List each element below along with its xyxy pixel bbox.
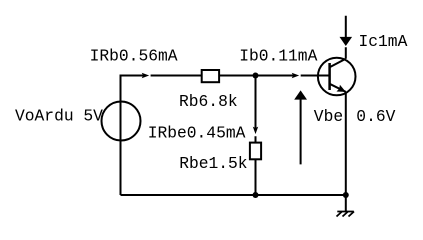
svg-text:Vbe: Vbe (314, 107, 343, 126)
svg-text:Ib0.11mA: Ib0.11mA (239, 46, 317, 65)
svg-text:0.6V: 0.6V (356, 107, 395, 126)
transistor Q1 base bar (328, 63, 331, 90)
transistor Q1 body circle (318, 58, 356, 96)
arrowhead IRbe current direction (253, 127, 258, 135)
wire bottom rail (121, 194, 346, 196)
svg-text:Rbe1.5k: Rbe1.5k (179, 154, 247, 173)
svg-text:Rb6.8k: Rb6.8k (179, 92, 238, 111)
wire top segment Rb to base node (220, 75, 330, 77)
transistor Q1 collector diagonal (330, 59, 346, 68)
wire junction down to Rbe (255, 76, 257, 143)
transistor Q1 emitter diagonal (330, 84, 346, 92)
resistor Rbe (250, 143, 261, 160)
svg-text:Ic1mA: Ic1mA (359, 32, 408, 51)
wire left vertical (source branch) (120, 75, 122, 196)
wire top segment source to Rb (120, 75, 202, 77)
node junction dot emitter/bottom rail (343, 192, 349, 198)
wire Rbe to bottom rail (255, 160, 257, 195)
arrowhead Ib current direction (292, 73, 300, 78)
transistor Q1 emitter arrowhead (337, 85, 346, 92)
svg-text:IRbe0.45mA: IRbe0.45mA (148, 123, 246, 142)
svg-text:VoArdu 5V: VoArdu 5V (15, 107, 103, 126)
svg-text:IRb0.56mA: IRb0.56mA (90, 46, 178, 65)
node junction dot at Rb/Rbe/base (253, 73, 259, 79)
node junction dot Rbe/bottom rail (253, 192, 259, 198)
voltage source V (VoArdu) (102, 102, 141, 141)
wire collector vertical (345, 16, 347, 59)
wire emitter vertical to bottom rail (345, 92, 347, 195)
resistor Rb (202, 70, 219, 82)
ground symbol (337, 195, 355, 217)
arrowhead Ic current direction (340, 37, 353, 46)
arrowhead IRb current direction (142, 73, 150, 78)
voltage arrow Vbe (294, 90, 307, 164)
